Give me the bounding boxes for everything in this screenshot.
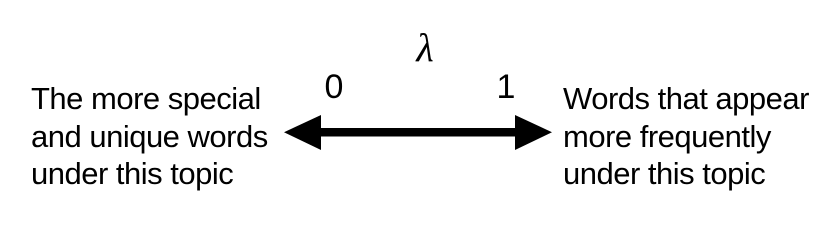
right text block	[563, 80, 809, 193]
double-headed arrow	[279, 110, 557, 156]
label 0	[317, 69, 351, 106]
left text block	[31, 80, 268, 193]
lambda label	[408, 28, 442, 68]
label 1	[489, 69, 523, 106]
